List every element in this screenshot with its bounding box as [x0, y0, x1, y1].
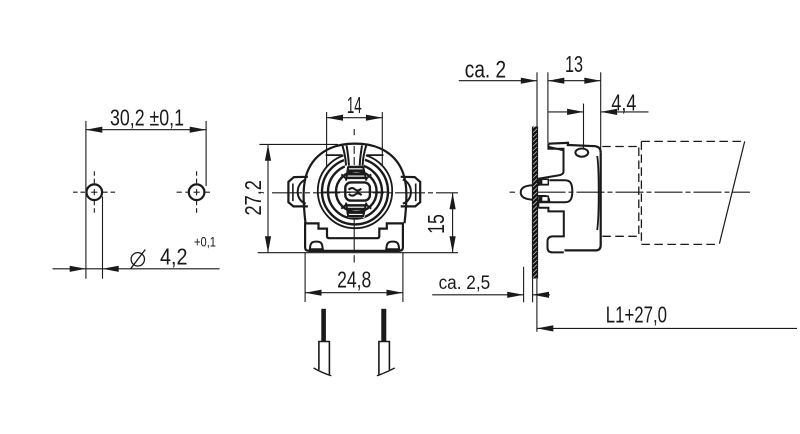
svg-text:27,2: 27,2	[240, 180, 266, 216]
arrow phi right	[103, 266, 119, 272]
ext line 14 right	[381, 112, 383, 166]
base foot slot right	[386, 242, 399, 250]
end face arc	[597, 156, 599, 230]
dimension line phi 4,2	[53, 268, 220, 270]
vertical centerline	[353, 129, 355, 135]
ring circle	[322, 158, 388, 224]
ext line 24,8 right	[402, 253, 404, 303]
ext line 27,2 / 15 bottom (shared)	[258, 252, 458, 254]
right tab	[401, 177, 421, 207]
svg-text:14: 14	[347, 92, 362, 118]
centerline in slot channel	[353, 146, 355, 166]
arrow 27,2 bottom	[265, 236, 271, 252]
plunger hook blocks	[538, 179, 541, 185]
dim line ca. 2,5	[432, 294, 523, 296]
arrow 15 bottom	[450, 236, 456, 252]
svg-text:30,2 ±0,1: 30,2 ±0,1	[110, 105, 184, 131]
rotor disc	[336, 171, 377, 212]
inner circle	[328, 165, 382, 219]
ledge line left	[326, 154, 343, 156]
arrow 24,8 left	[305, 290, 321, 296]
stack wing right lower	[366, 205, 371, 209]
ext line ca 2,5	[523, 267, 525, 303]
dim line 13	[548, 80, 601, 82]
plunger neck lines	[538, 184, 549, 186]
rotor white mask	[340, 145, 373, 218]
rotor center marks	[349, 188, 362, 190]
plunger bar	[538, 180, 572, 202]
extension line 30,2 right	[205, 121, 207, 186]
lamp tube dashed	[640, 141, 642, 244]
ext line 4,4 (pin hole)	[583, 104, 585, 149]
dome outline	[304, 144, 407, 224]
mounting panel (hatched)	[533, 127, 538, 279]
slot wall right	[363, 145, 367, 165]
arrow 24,8 right	[387, 290, 403, 296]
center cross right hole	[194, 191, 200, 193]
arrow 15 top	[450, 193, 456, 209]
svg-text:ca. 2: ca. 2	[465, 56, 506, 83]
base plate	[305, 223, 403, 251]
pin hole ellipse	[575, 149, 588, 157]
stack wing left	[341, 174, 346, 178]
svg-text:4,4: 4,4	[611, 89, 636, 115]
ext line 13 right (lamp face)	[600, 72, 602, 149]
svg-text:15: 15	[423, 214, 449, 234]
ext line 24,8 left	[304, 253, 306, 303]
svg-text:ca. 2,5: ca. 2,5	[439, 273, 491, 294]
dim line 15	[452, 193, 454, 253]
rotor top stack	[346, 166, 348, 180]
hole circle left	[87, 184, 103, 200]
ext line 13 left (body face)	[547, 72, 549, 143]
base foot slot left	[310, 242, 323, 250]
hole circle right	[189, 184, 205, 200]
svg-text:+0,1: +0,1	[194, 234, 216, 250]
svg-text:L1+27,0: L1+27,0	[606, 302, 667, 328]
stack wing left lower	[341, 205, 346, 209]
ext line ca2 left / panel right face	[536, 72, 538, 126]
wire right black	[381, 309, 386, 342]
rotor barrel	[345, 182, 370, 200]
plunger nose	[521, 185, 533, 200]
dim line 14	[327, 117, 383, 119]
svg-text:4,2: 4,2	[160, 244, 188, 270]
dim line 24,8	[305, 292, 403, 294]
crosshair dashes left hole	[73, 191, 86, 193]
wire left sleeve	[319, 342, 330, 375]
dim line 27,2	[267, 144, 269, 252]
top lug slant	[548, 147, 563, 151]
horizontal centerline	[272, 192, 458, 194]
left tab	[288, 177, 308, 207]
svg-text:13: 13	[565, 51, 583, 77]
arrow 30,2 right	[190, 127, 206, 133]
lamp cap dashed	[602, 146, 637, 148]
dim line 4,4	[549, 111, 584, 113]
ext line 14 left	[326, 112, 328, 166]
lower hook + lower body	[538, 208, 564, 253]
arrow 14 left	[327, 115, 343, 121]
hole tangent line right (phi 4,2 ext)	[102, 197, 104, 279]
side centerline	[510, 191, 515, 193]
lamp break line	[719, 141, 744, 243]
stack wing right	[366, 174, 371, 178]
crosshair dashes right hole	[185, 191, 189, 193]
outer plate circle	[318, 154, 392, 228]
top edge	[548, 142, 567, 145]
wire left black	[321, 309, 326, 342]
slot wall left	[342, 145, 346, 165]
rotor bottom stack	[346, 203, 348, 217]
right edge	[565, 153, 601, 251]
dim line ca. 2 with leader	[459, 80, 537, 82]
panel face ext lines below	[532, 279, 534, 303]
arrow phi left	[70, 266, 86, 272]
dimension line 30,2	[86, 129, 206, 131]
phi symbol	[131, 253, 144, 266]
dim line L1+27,0	[537, 327, 797, 329]
ext line 27,2 top	[259, 143, 338, 145]
center cross left hole	[91, 191, 97, 193]
left face upper	[538, 144, 563, 179]
arrow 14 right	[366, 115, 382, 121]
ledge line right	[367, 154, 384, 156]
wire right sleeve	[379, 342, 390, 375]
extension line 30,2 left / hole tangent left	[85, 121, 87, 279]
svg-text:24,8: 24,8	[337, 267, 371, 293]
arrow 30,2 left	[86, 127, 102, 133]
arrow 27,2 top	[265, 144, 271, 160]
